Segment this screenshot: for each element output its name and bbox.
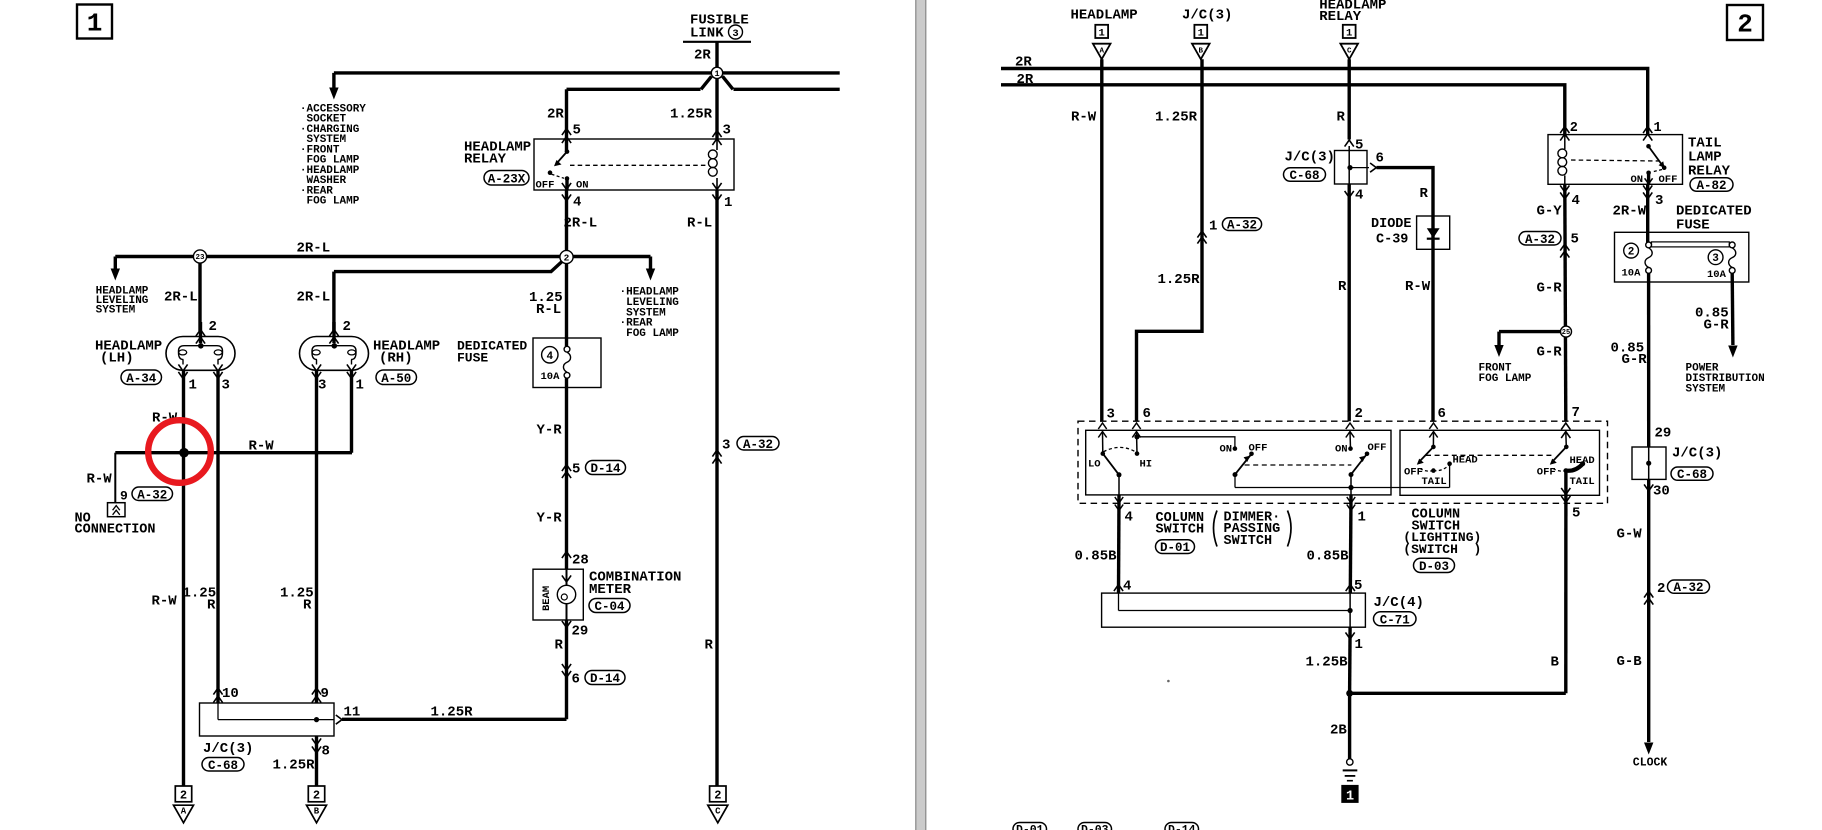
svg-text:1.25R: 1.25R <box>1158 272 1201 288</box>
svg-text:D-14: D-14 <box>590 672 621 686</box>
svg-text:6: 6 <box>572 672 580 688</box>
svg-text:R: R <box>1338 279 1347 295</box>
svg-text:6: 6 <box>1376 151 1384 167</box>
svg-text:2R: 2R <box>1017 72 1034 88</box>
svg-text:B: B <box>1199 47 1204 55</box>
svg-text:D-03: D-03 <box>1419 560 1449 574</box>
svg-text:TAIL: TAIL <box>1570 476 1595 488</box>
svg-text:2: 2 <box>209 319 217 335</box>
svg-text:D-03: D-03 <box>1081 824 1109 830</box>
svg-text:G-R: G-R <box>1704 318 1730 334</box>
svg-text:2: 2 <box>1737 10 1753 40</box>
svg-text:4: 4 <box>1355 188 1363 204</box>
svg-text:1: 1 <box>1099 27 1105 39</box>
svg-text:2R: 2R <box>547 107 564 123</box>
svg-text:2: 2 <box>564 252 570 263</box>
svg-text:Y-R: Y-R <box>537 511 563 527</box>
svg-text:A-32: A-32 <box>1227 219 1257 233</box>
svg-text:R: R <box>1337 110 1346 126</box>
svg-text:FOG LAMP: FOG LAMP <box>626 328 679 340</box>
svg-text:C: C <box>715 807 721 817</box>
svg-text:30: 30 <box>1653 484 1670 500</box>
svg-text:OFF: OFF <box>536 180 555 192</box>
svg-text:5: 5 <box>1355 138 1363 154</box>
svg-text:5: 5 <box>573 123 581 139</box>
svg-text:D-14: D-14 <box>590 462 621 476</box>
svg-text:2: 2 <box>313 789 320 803</box>
svg-text:29: 29 <box>1655 426 1672 442</box>
svg-text:C-04: C-04 <box>594 600 625 614</box>
svg-text:1.25B: 1.25B <box>1306 655 1349 671</box>
svg-text:C-68: C-68 <box>1289 169 1319 183</box>
svg-text:2: 2 <box>1570 121 1578 136</box>
svg-text:1: 1 <box>724 195 732 211</box>
svg-text:BEAM: BEAM <box>541 586 553 611</box>
svg-text:7: 7 <box>1572 405 1580 421</box>
svg-text:SYSTEM: SYSTEM <box>96 304 136 316</box>
svg-text:3: 3 <box>222 378 230 394</box>
svg-text:2B: 2B <box>1330 723 1347 739</box>
svg-text:5: 5 <box>1571 232 1579 248</box>
svg-text:5: 5 <box>1572 506 1580 522</box>
svg-text:3: 3 <box>732 28 738 40</box>
svg-text:10: 10 <box>222 686 239 702</box>
svg-text:1: 1 <box>1358 510 1366 526</box>
svg-text:OFF: OFF <box>1659 174 1678 186</box>
svg-text:G-R: G-R <box>1622 352 1648 368</box>
svg-text:(SWITCH ): (SWITCH ) <box>1403 542 1481 557</box>
svg-text:1.25R: 1.25R <box>431 705 474 721</box>
svg-text:METER: METER <box>589 582 632 598</box>
svg-text:SWITCH: SWITCH <box>1156 523 1205 538</box>
svg-text:D-14: D-14 <box>1168 824 1196 830</box>
svg-text:Y-R: Y-R <box>537 423 563 439</box>
svg-text:2R: 2R <box>1015 55 1032 71</box>
svg-text:R-W: R-W <box>249 439 275 455</box>
svg-text:1: 1 <box>1346 789 1354 804</box>
svg-text:3: 3 <box>1107 407 1115 423</box>
svg-text:SWITCH: SWITCH <box>1224 534 1273 549</box>
svg-text:3: 3 <box>1712 253 1719 265</box>
svg-text:23: 23 <box>195 254 205 262</box>
svg-text:0.85B: 0.85B <box>1075 549 1118 565</box>
svg-text:J/C(3): J/C(3) <box>1285 150 1335 166</box>
svg-text:G-B: G-B <box>1617 654 1643 670</box>
svg-text:OFF: OFF <box>1368 442 1387 454</box>
svg-text:C-71: C-71 <box>1380 613 1410 627</box>
svg-text:0.85B: 0.85B <box>1307 549 1350 565</box>
svg-text:11: 11 <box>344 705 361 721</box>
svg-text:R: R <box>1420 186 1429 202</box>
svg-text:A-32: A-32 <box>1525 233 1555 247</box>
svg-text:2: 2 <box>1628 246 1635 258</box>
svg-text:R: R <box>705 638 714 654</box>
svg-text:2R-L: 2R-L <box>297 241 331 257</box>
svg-text:1: 1 <box>1198 27 1204 39</box>
svg-text:A-34: A-34 <box>126 372 157 386</box>
svg-text:4: 4 <box>1572 193 1580 209</box>
svg-text:2R-L: 2R-L <box>164 290 198 306</box>
svg-text:9: 9 <box>120 489 128 504</box>
svg-text:CLOCK: CLOCK <box>1633 757 1668 770</box>
svg-text:C-68: C-68 <box>1677 468 1707 482</box>
svg-text:A: A <box>181 807 187 817</box>
svg-text:R-W: R-W <box>1405 279 1431 295</box>
svg-text:5: 5 <box>572 462 580 478</box>
svg-text:2R-L: 2R-L <box>564 216 598 232</box>
svg-text:R-L: R-L <box>687 216 712 232</box>
svg-text:28: 28 <box>572 553 589 569</box>
svg-text:FOG LAMP: FOG LAMP <box>1479 373 1532 385</box>
svg-text:C-68: C-68 <box>208 759 238 773</box>
svg-text:LO: LO <box>1088 459 1101 471</box>
svg-text:2R-L: 2R-L <box>297 290 331 306</box>
svg-text:1: 1 <box>87 9 103 39</box>
svg-text:ON: ON <box>1631 174 1644 186</box>
svg-text:ON: ON <box>1220 444 1233 456</box>
svg-text:A-32: A-32 <box>1673 581 1703 595</box>
svg-text:G-Y: G-Y <box>1537 204 1563 220</box>
svg-text:2: 2 <box>714 789 721 803</box>
svg-text:29: 29 <box>572 624 589 640</box>
svg-text:1: 1 <box>1209 219 1217 235</box>
svg-text:(RH): (RH) <box>379 351 413 367</box>
svg-text:R: R <box>207 598 216 614</box>
svg-text:1: 1 <box>1346 27 1352 39</box>
svg-text:10A: 10A <box>1622 267 1642 279</box>
svg-text:9: 9 <box>321 686 329 702</box>
svg-text:(LH): (LH) <box>100 351 134 367</box>
svg-text:HI: HI <box>1140 459 1153 471</box>
svg-text:10A: 10A <box>1707 269 1727 281</box>
svg-text:6: 6 <box>1438 406 1446 422</box>
svg-text:4: 4 <box>573 195 581 211</box>
svg-text:1: 1 <box>356 378 364 394</box>
svg-text:OFF: OFF <box>1537 467 1556 479</box>
svg-text:4: 4 <box>1123 579 1131 595</box>
svg-text:4: 4 <box>1125 510 1133 526</box>
svg-text:25: 25 <box>1562 329 1570 337</box>
svg-text:3: 3 <box>722 438 730 454</box>
svg-text:1: 1 <box>1654 121 1662 136</box>
svg-text:ON: ON <box>1335 444 1348 456</box>
svg-text:G-R: G-R <box>1537 281 1563 297</box>
svg-text:B: B <box>314 807 320 817</box>
svg-text:5: 5 <box>1354 578 1362 594</box>
svg-text:A-82: A-82 <box>1696 179 1726 193</box>
svg-text:D-01: D-01 <box>1160 541 1190 555</box>
svg-text:1.25R: 1.25R <box>273 758 316 774</box>
svg-text:FOG LAMP: FOG LAMP <box>307 196 360 208</box>
svg-text:FUSE: FUSE <box>1676 218 1710 234</box>
svg-text:2: 2 <box>1355 406 1363 422</box>
svg-text:C-39: C-39 <box>1376 233 1408 248</box>
svg-text:D-01: D-01 <box>1016 824 1044 830</box>
svg-text:3: 3 <box>1655 193 1663 209</box>
svg-text:FUSE: FUSE <box>457 351 488 366</box>
svg-text:10A: 10A <box>541 371 561 383</box>
svg-text:3: 3 <box>318 378 326 394</box>
svg-text:J/C(3): J/C(3) <box>1672 446 1722 462</box>
svg-text:A-32: A-32 <box>743 438 773 452</box>
svg-text:1.25R: 1.25R <box>1155 110 1198 126</box>
svg-text:CONNECTION: CONNECTION <box>75 523 156 538</box>
svg-text:8: 8 <box>322 744 330 760</box>
svg-text:1: 1 <box>714 69 719 79</box>
svg-text:SYSTEM: SYSTEM <box>1686 383 1726 395</box>
svg-text:HEAD: HEAD <box>1570 455 1595 467</box>
svg-text:4: 4 <box>546 351 553 363</box>
svg-text:RELAY: RELAY <box>1319 9 1362 25</box>
svg-text:A-32: A-32 <box>137 488 167 502</box>
svg-text:HEAD: HEAD <box>1453 454 1478 466</box>
svg-text:2: 2 <box>1657 581 1665 597</box>
svg-text:1: 1 <box>189 378 197 394</box>
svg-text:R-W: R-W <box>1071 110 1097 126</box>
svg-text:3: 3 <box>723 123 731 139</box>
svg-text:2: 2 <box>180 789 187 803</box>
svg-text:HEADLAMP: HEADLAMP <box>1071 8 1138 24</box>
svg-text:TAIL: TAIL <box>1422 476 1447 488</box>
svg-text:ON: ON <box>576 180 589 192</box>
svg-text:LINK: LINK <box>690 26 724 42</box>
svg-text:B: B <box>1551 655 1560 671</box>
svg-text:C: C <box>1347 47 1352 55</box>
svg-text:G-W: G-W <box>1617 527 1643 543</box>
svg-text:OFF: OFF <box>1404 467 1423 479</box>
svg-text:J/C(3): J/C(3) <box>1182 8 1232 24</box>
svg-text:J/C(3): J/C(3) <box>203 741 253 757</box>
svg-text:1.25R: 1.25R <box>670 107 713 123</box>
svg-text:A-23X: A-23X <box>488 172 526 186</box>
svg-text:1: 1 <box>1355 637 1363 653</box>
svg-text:A-50: A-50 <box>381 372 411 386</box>
svg-text:R-W: R-W <box>152 594 178 610</box>
svg-text:A: A <box>1099 47 1104 55</box>
svg-text:2R: 2R <box>694 48 711 64</box>
svg-text:DIODE: DIODE <box>1371 217 1412 232</box>
svg-text:G-R: G-R <box>1537 345 1563 361</box>
svg-text:R: R <box>303 598 312 614</box>
svg-text:2R-W: 2R-W <box>1613 204 1647 220</box>
svg-text:RELAY: RELAY <box>464 152 507 168</box>
svg-text:2: 2 <box>343 319 351 335</box>
svg-text:6: 6 <box>1143 406 1151 422</box>
svg-text:R-L: R-L <box>536 302 561 318</box>
svg-text:R: R <box>555 638 564 654</box>
svg-text:J/C(4): J/C(4) <box>1374 595 1424 611</box>
svg-text:R-W: R-W <box>87 472 113 488</box>
